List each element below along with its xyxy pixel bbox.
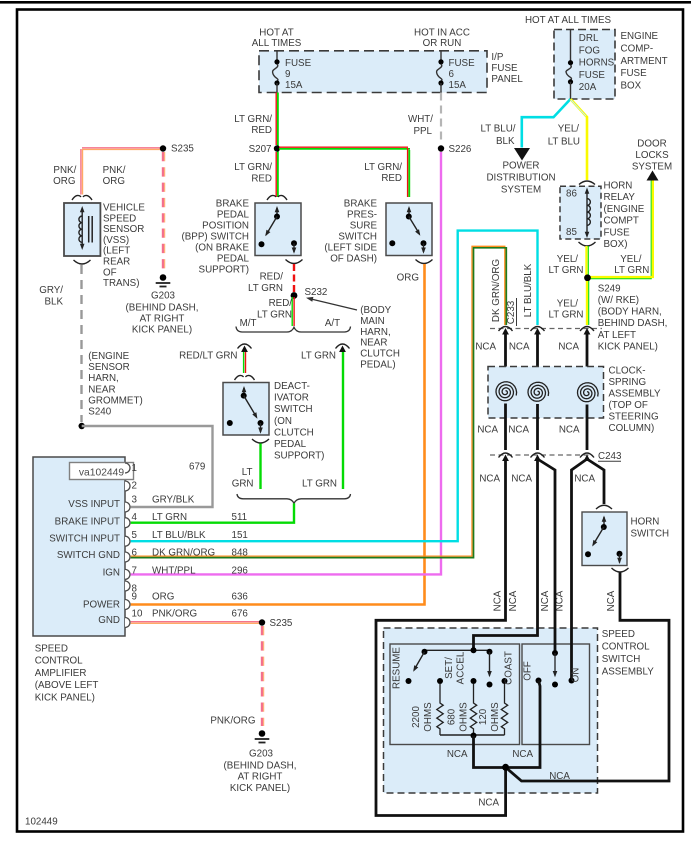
vehicle speed sensor VSS (inductive pickup) [64, 195, 100, 264]
wire LT BLU/BLK to power distribution system [522, 99, 571, 148]
svg-text:4: 4 [132, 512, 138, 523]
off-page arrow to power distribution system [486, 148, 555, 196]
svg-text:C233: C233 [506, 300, 517, 324]
svg-text:BOX): BOX) [604, 239, 628, 250]
svg-text:YEL/: YEL/ [557, 299, 579, 310]
svg-text:STEERING: STEERING [609, 412, 659, 423]
svg-text:PNK/: PNK/ [103, 165, 126, 176]
label DEACTIVATOR SWITCH (ON CLUTCH PEDAL SUPPORT) [274, 381, 324, 462]
svg-text:NCA: NCA [478, 798, 499, 809]
svg-text:OHMS: OHMS [423, 702, 434, 732]
wire label RED/LT GRN (M/T branch) [179, 351, 237, 362]
svg-text:NCA: NCA [509, 342, 530, 353]
switch block RESUME/SET-ACCEL/COAST (inner box) [390, 644, 520, 745]
label SPEED CONTROL AMPLIFIER (ABOVE LEFT KICK PANEL) [35, 644, 99, 704]
OFF/ON wiper contact and arm [552, 650, 558, 688]
svg-text:HARN,: HARN, [88, 373, 118, 384]
wire LT GRN A/T branch to merge [342, 352, 344, 489]
svg-text:VEHICLE: VEHICLE [103, 203, 145, 214]
wire YEL/LT BLU from fuse 20A to horn relay [571, 99, 588, 180]
svg-text:OF DASH): OF DASH) [330, 254, 377, 265]
wire label YEL/LT BLU [548, 124, 580, 148]
svg-text:SPEED: SPEED [103, 213, 136, 224]
svg-text:REAR: REAR [103, 257, 130, 268]
svg-text:LOCKS: LOCKS [635, 150, 669, 161]
wire label LT GRN/RED (above S207) [234, 114, 272, 136]
svg-text:(LEFT SIDE: (LEFT SIDE [324, 243, 377, 254]
wire label PNK/ORG (bottom) [210, 716, 255, 727]
wire label PNK/ORG (ground drop) [103, 165, 126, 187]
svg-text:SUPPORT): SUPPORT) [199, 265, 249, 276]
wire NCA C243 around left side to junction [376, 460, 506, 816]
svg-text:NEAR: NEAR [360, 338, 387, 349]
wire LT GRN circuit 511 to amplifier pin 4 [131, 503, 294, 522]
svg-text:RED: RED [251, 125, 272, 136]
svg-text:NCA: NCA [558, 342, 579, 353]
resistor R1 2200 OHMS [411, 684, 443, 735]
wire name labels and circuit numbers for pins 3-10 [152, 495, 248, 620]
svg-text:HARN,: HARN, [360, 327, 390, 338]
svg-text:OFF: OFF [523, 661, 534, 681]
svg-text:RED/LT GRN: RED/LT GRN [179, 351, 237, 362]
svg-text:511: 511 [232, 512, 248, 523]
svg-text:LT GRN: LT GRN [248, 283, 283, 294]
svg-text:POWER: POWER [502, 161, 539, 172]
wire label GRY/BLK [39, 285, 63, 307]
switch position label SET/ACCEL (rotated) [444, 651, 467, 684]
svg-text:PNK/: PNK/ [53, 165, 76, 176]
svg-text:ON: ON [571, 668, 582, 683]
contact dots (resistor taps) [437, 678, 508, 684]
svg-text:AMPLIFIER: AMPLIFIER [35, 668, 87, 679]
svg-text:SWITCH: SWITCH [602, 654, 641, 665]
svg-text:151: 151 [232, 530, 248, 541]
svg-text:YEL/: YEL/ [558, 124, 580, 135]
wire label YEL/LT GRN (below S249) [548, 299, 583, 321]
svg-text:A/T: A/T [325, 318, 340, 329]
svg-text:1: 1 [132, 463, 137, 474]
net label HOT IN ACC OR RUN (fuse 6 feed) [414, 27, 470, 49]
switch S4 horn switch [582, 505, 629, 572]
svg-text:IVATOR: IVATOR [274, 393, 309, 404]
svg-text:AT RIGHT: AT RIGHT [238, 772, 283, 783]
wire ORG circuit 636, brake pressure switch to amplifier pin 9 [131, 264, 425, 605]
svg-text:636: 636 [232, 592, 249, 603]
label CLOCKSPRING ASSEMBLY (TOP OF STEERING COLUMN) [609, 366, 662, 435]
svg-text:2: 2 [132, 481, 137, 492]
wire YEL/LT GRN horn relay pin 85 to S249 [586, 246, 588, 277]
wire label YEL/LT GRN (above S249) [548, 254, 583, 276]
svg-text:GRY/: GRY/ [39, 285, 63, 296]
wire NCA C243 to wiper bus of SET/ACCEL switch [474, 460, 538, 649]
switch position label COAST (rotated) [504, 651, 515, 685]
merge brace to amplifier pin 4 [237, 494, 351, 503]
connector C243 (in-line connector) [490, 451, 622, 462]
wire labels NCA (assembly bottom) [447, 749, 571, 809]
wire fuse 6 to S226 (dashed) [440, 93, 442, 145]
wire NCA C243 to horn switch [587, 459, 604, 504]
svg-text:COLUMN): COLUMN) [609, 423, 655, 434]
svg-text:GROMMET): GROMMET) [88, 395, 142, 406]
wire label PNK/ORG (left of VSS drop) [53, 165, 76, 187]
svg-text:KICK PANEL): KICK PANEL) [132, 325, 192, 336]
fuse F6 15A (I/P fuse panel) [436, 51, 475, 93]
I/P fuse panel enclosure (dashed box) [259, 51, 487, 93]
svg-text:S235: S235 [171, 144, 194, 155]
svg-text:5: 5 [132, 530, 138, 541]
svg-text:676: 676 [232, 609, 249, 620]
wire PNK/ORG circuit 676, amplifier pin 10 to S235 [131, 622, 262, 624]
svg-text:WHT/: WHT/ [408, 114, 433, 125]
svg-text:KICK PANEL): KICK PANEL) [230, 783, 290, 794]
svg-text:M/T: M/T [240, 318, 257, 329]
splice S235 (top) [160, 144, 195, 155]
svg-text:FUSE: FUSE [491, 63, 518, 74]
fuse F9 15A (I/P fuse panel) [272, 51, 311, 93]
svg-text:G203: G203 [151, 291, 176, 302]
svg-text:RED: RED [251, 174, 272, 185]
svg-text:(ON: (ON [274, 416, 292, 427]
svg-text:HOT IN ACC: HOT IN ACC [414, 27, 470, 38]
svg-text:BEHIND DASH,: BEHIND DASH, [598, 318, 668, 329]
wire label RED/LT GRN (above S232) [248, 272, 283, 295]
svg-text:2200: 2200 [411, 706, 422, 728]
svg-text:SWITCH INPUT: SWITCH INPUT [49, 534, 120, 545]
wire label LT GRN (A/T merge branch) [302, 479, 337, 490]
switch block OFF/ON (inner box) [522, 644, 590, 745]
svg-text:RED/: RED/ [269, 298, 293, 309]
svg-text:HORN: HORN [631, 517, 660, 528]
svg-text:BRAKE INPUT: BRAKE INPUT [55, 517, 120, 528]
svg-text:NCA: NCA [606, 590, 617, 611]
amplifier connector pin bumps 1-10 [125, 463, 130, 628]
wire DK GRN/ORG circuit 848, amplifier pin 6 to connector C233 [131, 246, 507, 557]
svg-text:RED/: RED/ [260, 272, 284, 283]
svg-text:7: 7 [132, 566, 137, 577]
svg-text:20A: 20A [579, 82, 597, 93]
splice S226 [438, 144, 472, 155]
svg-text:9: 9 [285, 69, 290, 80]
label S240 location (ENGINE SENSOR HARN, NEAR GROMMET) [88, 351, 142, 418]
svg-text:SPEED: SPEED [35, 644, 68, 655]
svg-text:SWITCH: SWITCH [274, 404, 313, 415]
amplifier pin function labels [49, 499, 120, 626]
svg-text:LT GRN: LT GRN [548, 265, 583, 276]
svg-text:15A: 15A [449, 80, 467, 91]
svg-text:S207: S207 [249, 144, 272, 155]
wire labels NCA (rotated, mid-run) [493, 590, 618, 611]
label VEHICLE SPEED SENSOR (VSS) (LEFT REAR OF TRANS) [103, 203, 145, 290]
wire YEL/LT GRN S249 to connector C233 [587, 281, 589, 325]
svg-text:(ENGINE: (ENGINE [604, 204, 645, 215]
svg-text:RELAY: RELAY [604, 192, 636, 203]
svg-text:GRN: GRN [232, 479, 254, 490]
wire label ORG [397, 273, 419, 284]
svg-text:ORG: ORG [397, 273, 419, 284]
off-page arrow to door locks system [632, 139, 672, 181]
svg-text:(ABOVE LEFT: (ABOVE LEFT [35, 680, 99, 691]
resistor R2 680 OHMS [447, 684, 477, 735]
callout arrow to S232 (BODY MAIN HARN, NEAR CLUTCH PEDAL) [306, 297, 400, 371]
wire RED/LT GRN BPP switch to S232 (dashed) [293, 264, 295, 292]
svg-text:PEDAL: PEDAL [274, 439, 307, 450]
svg-text:680: 680 [447, 708, 458, 725]
svg-text:PANEL: PANEL [491, 74, 523, 85]
svg-text:NCA: NCA [512, 749, 533, 760]
svg-text:PNK/ORG: PNK/ORG [152, 609, 197, 620]
svg-text:LT GRN: LT GRN [152, 512, 187, 523]
svg-text:KICK PANEL): KICK PANEL) [35, 692, 95, 703]
svg-text:CLOCK-: CLOCK- [609, 366, 646, 377]
wire NCA resistor bus to junction [474, 736, 504, 768]
svg-text:(VSS): (VSS) [103, 235, 129, 246]
svg-text:KICK PANEL): KICK PANEL) [598, 341, 658, 352]
svg-text:296: 296 [232, 566, 249, 577]
wire labels NCA above clockspring [475, 342, 579, 353]
svg-text:LT BLU: LT BLU [548, 137, 580, 148]
wire GRY/BLK VSS to S240 (dashed) [80, 265, 82, 422]
svg-text:SENSOR: SENSOR [103, 224, 144, 235]
svg-text:PEDAL: PEDAL [217, 210, 250, 221]
wire label YEL/LT GRN (door locks branch) [614, 254, 649, 276]
svg-text:PPL: PPL [413, 126, 432, 137]
pin numbers 1-10 [132, 463, 143, 620]
switch S3 deactivator switch (clutch) [223, 375, 269, 443]
svg-text:AT RIGHT: AT RIGHT [140, 314, 185, 325]
svg-text:ACCEL: ACCEL [456, 651, 467, 684]
junction node (assembly common) [502, 764, 509, 771]
svg-text:BRAKE: BRAKE [344, 199, 378, 210]
wire label LT GRN/RED (below S207) [234, 162, 272, 185]
svg-text:SWITCH GND: SWITCH GND [57, 550, 120, 561]
label HORN RELAY (ENGINE COMPT FUSE BOX) [604, 181, 645, 251]
svg-text:ALL TIMES: ALL TIMES [252, 38, 302, 49]
svg-text:LT GRN: LT GRN [301, 351, 336, 362]
wire PNK/ORG S235 to ground G203 (dashed) [163, 152, 165, 272]
wire labels NCA below clockspring [477, 425, 580, 436]
svg-text:PEDAL: PEDAL [217, 254, 250, 265]
svg-text:(BPP) SWITCH: (BPP) SWITCH [182, 232, 250, 243]
wire label LT GRN/RED (brake pressure branch) [364, 162, 402, 184]
svg-text:HORNS: HORNS [579, 58, 615, 69]
wire WHT/PPL circuit 296, S226 to amplifier pin 7 [131, 152, 441, 574]
svg-text:S235: S235 [270, 618, 293, 629]
wire label LT GRN (deactivator branch) [232, 467, 254, 490]
svg-text:LT GRN: LT GRN [257, 310, 292, 321]
wire RED/LT GRN S232 to M/T-A/T split [292, 297, 294, 326]
svg-text:S249: S249 [598, 283, 621, 294]
speed control amplifier U1 (connector body) [33, 457, 125, 636]
wire NCA horn switch to assembly junction [506, 573, 669, 782]
svg-text:DRL: DRL [579, 33, 599, 44]
svg-text:NCA: NCA [479, 474, 500, 485]
svg-text:3: 3 [132, 495, 138, 506]
svg-text:LT GRN/: LT GRN/ [364, 162, 402, 173]
svg-text:NCA: NCA [508, 425, 529, 436]
svg-text:G203: G203 [249, 749, 274, 760]
svg-text:SENSOR: SENSOR [88, 362, 129, 373]
switch position label RESUME (rotated) [392, 647, 403, 689]
svg-text:GND: GND [98, 615, 120, 626]
svg-text:NCA: NCA [549, 771, 570, 782]
svg-text:CLUTCH: CLUTCH [360, 349, 400, 360]
svg-text:LT BLU/: LT BLU/ [480, 124, 515, 135]
svg-text:NCA: NCA [540, 590, 551, 611]
svg-text:NCA: NCA [493, 590, 504, 611]
svg-text:LT GRN: LT GRN [302, 479, 337, 490]
svg-text:NCA: NCA [508, 590, 519, 611]
wire LT BLU/BLK circuit 151, amplifier pin 5 to connector C233 [131, 231, 538, 542]
svg-text:DOOR: DOOR [637, 139, 666, 150]
splice S232 [291, 287, 328, 299]
svg-text:SPRING: SPRING [609, 377, 647, 388]
engine compartment fuse box enclosure (dashed box) [554, 30, 615, 100]
splice S235 (bottom) [259, 618, 293, 629]
svg-text:YEL/: YEL/ [557, 254, 579, 265]
wire LT GRN deactivator switch to merge [259, 444, 261, 490]
svg-text:SYSTEM: SYSTEM [501, 185, 541, 196]
svg-text:NEAR: NEAR [88, 384, 115, 395]
svg-text:(BEHIND DASH,: (BEHIND DASH, [126, 303, 199, 314]
connector breakout A/T branch [336, 344, 350, 352]
svg-text:DEACT-: DEACT- [274, 381, 310, 392]
svg-text:HORN: HORN [604, 181, 633, 192]
svg-text:102449: 102449 [25, 817, 58, 828]
svg-text:OHMS: OHMS [459, 702, 470, 732]
svg-text:WHT/PPL: WHT/PPL [152, 566, 196, 577]
svg-text:(BODY: (BODY [360, 305, 391, 316]
label BRAKE PRESSURE SWITCH (LEFT SIDE OF DASH) [324, 199, 377, 265]
wire NCA C243 to OFF/ON wiper [538, 459, 556, 652]
wire label LT GRN (A/T branch) [301, 351, 336, 362]
svg-text:PRES-: PRES- [347, 210, 377, 221]
svg-text:RESUME: RESUME [392, 647, 403, 689]
svg-text:C243: C243 [598, 451, 622, 462]
label ENGINE COMPARTMENT FUSE BOX [621, 31, 668, 92]
svg-text:COAST: COAST [504, 651, 515, 685]
svg-text:I/P: I/P [491, 52, 503, 63]
svg-text:(ENGINE: (ENGINE [88, 351, 129, 362]
svg-text:OF: OF [103, 267, 117, 278]
label BRAKE PEDAL POSITION (BPP) SWITCH (ON BRAKE PEDAL SUPPORT) [182, 199, 250, 276]
svg-text:RED: RED [381, 173, 402, 184]
svg-text:SYSTEM: SYSTEM [632, 162, 672, 173]
switch arm to RESUME contact [406, 652, 425, 684]
split brace M/T - A/T [236, 318, 351, 332]
svg-text:SWITCH: SWITCH [631, 529, 670, 540]
wire NCA C243 to ON contact [572, 459, 588, 680]
svg-text:SWITCH: SWITCH [338, 232, 377, 243]
svg-text:9: 9 [132, 592, 137, 603]
svg-text:LT GRN/: LT GRN/ [234, 162, 272, 173]
svg-text:SPEED: SPEED [602, 629, 635, 640]
svg-text:(LEFT: (LEFT [103, 246, 130, 257]
wire YEL/LT GRN from S249 up to door locks system [588, 181, 653, 279]
svg-text:120: 120 [478, 708, 489, 725]
svg-text:ASSEMBLY: ASSEMBLY [602, 666, 655, 677]
ground G203 (behind dash, at right kick panel) [126, 274, 199, 335]
splice S207 [249, 144, 281, 155]
svg-text:FUSE: FUSE [285, 58, 312, 69]
svg-text:ORG: ORG [152, 592, 174, 603]
connector breakout M/T branch [238, 344, 252, 352]
svg-text:PNK/ORG: PNK/ORG [210, 716, 255, 727]
OFF contact [523, 661, 542, 683]
label I/P FUSE PANEL [491, 52, 523, 85]
switch arm to SET/ACCEL contact [487, 652, 493, 688]
svg-text:(BODY HARN,: (BODY HARN, [598, 307, 662, 318]
wire LT GRN/RED fuse 9 to S207 and BPP switch [276, 93, 278, 198]
svg-text:CONTROL: CONTROL [35, 656, 83, 667]
net label HOT AT ALL TIMES (engine fuse box feed) [525, 15, 611, 26]
wire label RED/LT GRN (above split) [257, 298, 292, 321]
splice S249 [584, 274, 620, 294]
svg-text:SUPPORT): SUPPORT) [274, 451, 324, 462]
svg-text:(TOP OF: (TOP OF [609, 400, 648, 411]
svg-text:S226: S226 [449, 144, 472, 155]
wire NCA OFF contact to junction [509, 681, 540, 768]
part number tag va102449 [70, 463, 134, 480]
label S249 location (W/ RKE) (BODY HARN, BEHIND DASH, AT LEFT KICK PANEL) [598, 295, 668, 352]
svg-text:86: 86 [566, 189, 577, 200]
svg-text:ASSEMBLY: ASSEMBLY [609, 389, 662, 400]
svg-text:DK GRN/ORG: DK GRN/ORG [491, 259, 502, 322]
svg-text:PEDAL): PEDAL) [360, 360, 395, 371]
svg-text:TRANS): TRANS) [103, 278, 139, 289]
svg-text:POSITION: POSITION [202, 221, 249, 232]
svg-text:NCA: NCA [477, 425, 498, 436]
svg-text:BRAKE: BRAKE [216, 199, 250, 210]
svg-text:NCA: NCA [511, 474, 532, 485]
fuse DRL FOG HORNS 20A [566, 30, 615, 100]
svg-text:POWER: POWER [83, 600, 120, 611]
svg-text:LT BLU/BLK: LT BLU/BLK [523, 263, 534, 317]
svg-text:LT BLU/BLK: LT BLU/BLK [152, 530, 206, 541]
svg-text:679: 679 [189, 462, 205, 473]
wire PNK/ORG splice S235 to VSS [81, 148, 163, 195]
svg-text:GRY/BLK: GRY/BLK [152, 495, 195, 506]
svg-text:SET/: SET/ [444, 657, 455, 679]
svg-text:10: 10 [132, 609, 143, 620]
svg-text:NCA: NCA [559, 425, 580, 436]
svg-text:NCA: NCA [574, 474, 595, 485]
svg-text:FUSE: FUSE [579, 70, 606, 81]
svg-text:AT LEFT: AT LEFT [598, 330, 636, 341]
svg-text:HOT AT: HOT AT [259, 27, 293, 38]
wire RED/LT GRN M/T branch to deactivator switch [244, 352, 246, 373]
svg-text:FOG: FOG [579, 45, 600, 56]
svg-text:BLK: BLK [44, 296, 63, 307]
svg-text:DISTRIBUTION: DISTRIBUTION [486, 173, 555, 184]
circuit number 679 label [189, 462, 205, 473]
speed control switch assembly enclosure (dashed box) [384, 628, 598, 793]
svg-text:VSS INPUT: VSS INPUT [68, 499, 120, 510]
switch S2 brake pressure switch [386, 203, 433, 264]
svg-text:15A: 15A [285, 80, 303, 91]
svg-text:CONTROL: CONTROL [602, 641, 650, 652]
drawing number 102449 [25, 817, 58, 828]
switch wiper bus (RESUME/SET-ACCEL) [422, 647, 493, 655]
svg-text:LT GRN/: LT GRN/ [234, 114, 272, 125]
svg-text:COMPT: COMPT [604, 216, 639, 227]
wire labels NCA below C243 [479, 474, 595, 485]
resistor R3 120 OHMS [478, 684, 508, 735]
wire label WHT/PPL [408, 114, 433, 137]
clockspring assembly (top of steering column) [488, 367, 604, 419]
svg-text:COMP-: COMP- [621, 43, 654, 54]
ground G203 (bottom, behind dash at right kick panel) [224, 730, 297, 794]
wire GRY/BLK circuit 679, S240 to amplifier pin 3 [82, 426, 213, 507]
